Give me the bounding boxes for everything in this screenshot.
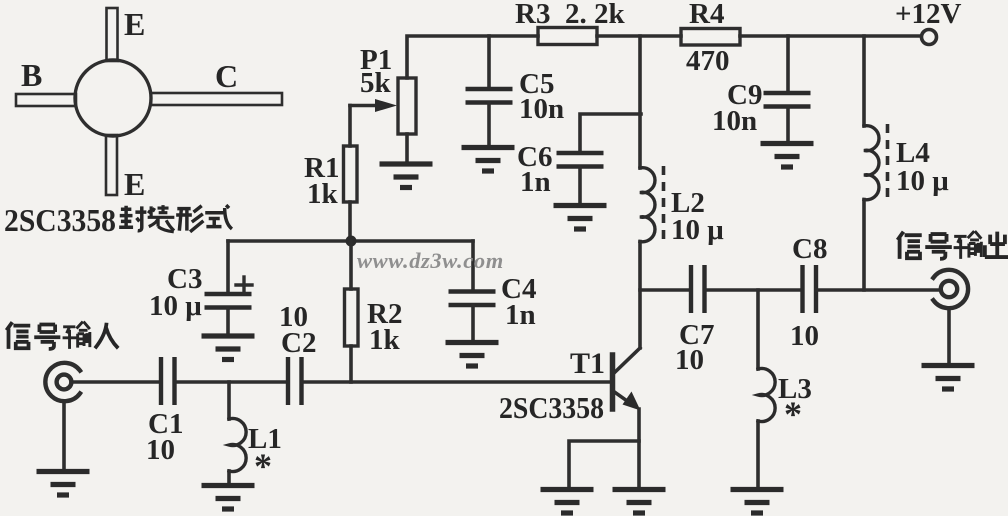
label 10u (C3) bbox=[149, 290, 202, 322]
label C8 bbox=[792, 233, 827, 265]
transistor package drawing 2SC3358 bbox=[16, 8, 282, 195]
ground under emitter branch bbox=[541, 490, 594, 514]
inductor L3 bbox=[758, 290, 775, 487]
label 1n (C6) bbox=[520, 166, 551, 198]
capacitor C7 bbox=[691, 265, 705, 313]
label L2 bbox=[671, 187, 705, 219]
svg-text:www.dz3w.com: www.dz3w.com bbox=[357, 248, 504, 273]
label 1n (C4) bbox=[505, 299, 536, 331]
label L4 bbox=[896, 137, 930, 169]
ground under C3 bbox=[202, 336, 255, 360]
label C4 bbox=[501, 273, 536, 305]
wire P1 to ground bbox=[405, 134, 409, 162]
output terminal bbox=[933, 270, 968, 308]
wire top rail from P1 to R3 bbox=[407, 36, 538, 78]
capacitor C8 bbox=[803, 265, 817, 313]
ground under emitter bbox=[613, 490, 666, 514]
svg-text:10n: 10n bbox=[712, 105, 757, 137]
label P1 bbox=[360, 44, 392, 76]
svg-text:T1: T1 bbox=[570, 347, 605, 380]
svg-text:10n: 10n bbox=[519, 93, 564, 125]
svg-text:B: B bbox=[21, 57, 42, 93]
input terminal bbox=[45, 363, 80, 401]
capacitor C6 bbox=[557, 114, 642, 203]
pin label E bottom bbox=[124, 166, 145, 202]
label R2 bbox=[367, 298, 402, 330]
pin label E top bbox=[124, 6, 145, 42]
wire output terminal to ground bbox=[947, 308, 951, 363]
ground under C9 bbox=[761, 144, 814, 168]
svg-text:10 μ: 10 μ bbox=[149, 290, 202, 322]
title CJK part bbox=[119, 205, 232, 232]
wire C2 to base bbox=[302, 380, 611, 384]
ground under C4 bbox=[446, 343, 499, 367]
transistor T1 bbox=[613, 348, 641, 411]
ground under P1 bbox=[380, 164, 433, 188]
node wire y241 C3 to C4 with junction bbox=[228, 239, 473, 243]
wire C7 to C8 bbox=[705, 288, 801, 292]
label C6 bbox=[517, 141, 552, 173]
+12V terminal bbox=[922, 30, 937, 45]
label C9 bbox=[727, 79, 762, 111]
svg-text:R3: R3 bbox=[515, 0, 550, 30]
label 10u (L2) bbox=[671, 214, 724, 246]
wire top rail R3 to R4 bbox=[597, 34, 681, 38]
label 10n (C5) bbox=[519, 93, 564, 125]
label 2SC3358 bbox=[499, 390, 604, 425]
svg-text:C: C bbox=[215, 58, 238, 94]
svg-text:2. 2k: 2. 2k bbox=[565, 0, 626, 30]
svg-text:2SC3358: 2SC3358 bbox=[4, 202, 116, 238]
pin label C bbox=[215, 58, 238, 94]
label R4 bbox=[689, 0, 724, 30]
ground under C6 bbox=[554, 206, 607, 230]
title 2SC3358 package label bbox=[4, 202, 116, 238]
label T1 bbox=[570, 347, 605, 380]
svg-text:C2: C2 bbox=[281, 327, 316, 359]
label star (L1) bbox=[254, 446, 272, 486]
label R3 2.2k bbox=[515, 0, 626, 30]
svg-text:R4: R4 bbox=[689, 0, 724, 30]
label 1k (R1) bbox=[307, 178, 339, 210]
capacitor C3 electrolytic bbox=[205, 241, 252, 334]
label 5k bbox=[360, 67, 392, 99]
label 470 bbox=[686, 45, 730, 77]
svg-text:1n: 1n bbox=[505, 299, 536, 331]
L4 dashed core bbox=[886, 124, 890, 204]
label C7 bbox=[679, 319, 714, 351]
ground under C5 bbox=[462, 148, 515, 172]
svg-text:10: 10 bbox=[675, 344, 704, 376]
wire L2 to collector bbox=[638, 242, 642, 349]
resistor R4 bbox=[681, 29, 740, 46]
svg-text:1n: 1n bbox=[520, 166, 551, 198]
wire C1 to C2 bbox=[175, 380, 287, 384]
wire input terminal to ground bbox=[62, 401, 66, 469]
inductor L1 bbox=[229, 382, 246, 484]
label C3 bbox=[167, 263, 202, 295]
svg-text:+12V: +12V bbox=[895, 0, 962, 30]
junction dot bbox=[346, 236, 357, 247]
potentiometer P1 bbox=[350, 78, 416, 134]
svg-text:1k: 1k bbox=[307, 178, 339, 210]
wire emitter down bbox=[637, 409, 641, 487]
watermark bbox=[357, 248, 504, 273]
label R1 bbox=[304, 152, 339, 184]
label C1 bbox=[148, 408, 183, 440]
label 10 (C8) bbox=[790, 320, 819, 352]
svg-text:E: E bbox=[124, 166, 145, 202]
resistor R1 bbox=[344, 106, 358, 242]
L2 dashed core bbox=[662, 166, 666, 246]
capacitor C9 bbox=[764, 36, 811, 141]
label 10n (C9) bbox=[712, 105, 757, 137]
label 10 (C2) bbox=[279, 301, 308, 333]
svg-text:10: 10 bbox=[790, 320, 819, 352]
ground under L1 bbox=[202, 486, 255, 510]
wire collector node to C7 bbox=[640, 288, 690, 292]
label C5 bbox=[519, 68, 554, 100]
svg-text:5k: 5k bbox=[360, 67, 392, 99]
wire input to C1 bbox=[71, 380, 159, 384]
ground under L3 bbox=[731, 490, 784, 514]
wire collector branch vertical top bbox=[638, 36, 642, 168]
wire emitter branch left bbox=[569, 441, 639, 487]
label L1 bbox=[248, 423, 282, 455]
svg-text:C8: C8 bbox=[792, 233, 827, 265]
capacitor C2 bbox=[288, 357, 302, 405]
label 1k (R2) bbox=[369, 324, 401, 356]
label 10 (C7) bbox=[675, 344, 704, 376]
label +12V bbox=[895, 0, 962, 30]
svg-text:10: 10 bbox=[146, 434, 175, 466]
label 10 (C1) bbox=[146, 434, 175, 466]
inductor L4 bbox=[864, 36, 879, 290]
label L3 bbox=[778, 373, 812, 405]
svg-text:E: E bbox=[124, 6, 145, 42]
capacitor C1 bbox=[161, 357, 175, 405]
plus sign of C3 bbox=[236, 277, 252, 293]
label C2 bbox=[281, 327, 316, 359]
resistor R3 bbox=[538, 28, 597, 45]
svg-text:2SC3358: 2SC3358 bbox=[499, 390, 604, 425]
capacitor C4 bbox=[449, 241, 496, 340]
ground under input bbox=[37, 472, 90, 496]
svg-text:*: * bbox=[784, 394, 802, 434]
svg-text:10 μ: 10 μ bbox=[671, 214, 724, 246]
label signal output bbox=[898, 231, 1008, 259]
capacitor C5 bbox=[466, 36, 513, 145]
svg-text:10 μ: 10 μ bbox=[896, 165, 949, 197]
wire top rail R4 to +12V terminal bbox=[740, 34, 920, 38]
label 10u (L4) bbox=[896, 165, 949, 197]
svg-text:1k: 1k bbox=[369, 324, 401, 356]
inductor L2 bbox=[640, 168, 655, 242]
wire C8 to output bbox=[817, 288, 942, 292]
ground under output bbox=[922, 366, 975, 390]
svg-text:*: * bbox=[254, 446, 272, 486]
resistor R2 bbox=[345, 241, 359, 382]
label star (L3) bbox=[784, 394, 802, 434]
svg-text:470: 470 bbox=[686, 45, 730, 77]
label signal input bbox=[6, 322, 118, 349]
pin label B bbox=[21, 57, 42, 93]
